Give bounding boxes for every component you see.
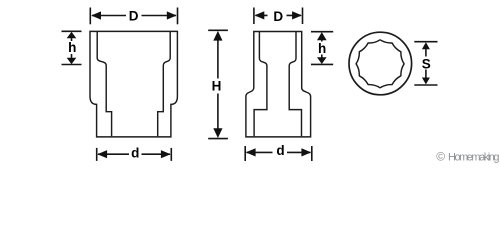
svg-text:H: H <box>212 79 222 94</box>
svg-text:h: h <box>68 40 76 55</box>
svg-text:d: d <box>276 143 284 158</box>
svg-text:©: © <box>436 149 445 163</box>
svg-text:h: h <box>318 41 326 56</box>
svg-text:d: d <box>131 145 139 160</box>
svg-text:Homemaking: Homemaking <box>448 152 500 164</box>
svg-text:D: D <box>129 9 139 24</box>
svg-text:D: D <box>273 9 283 24</box>
svg-text:S: S <box>422 56 431 71</box>
